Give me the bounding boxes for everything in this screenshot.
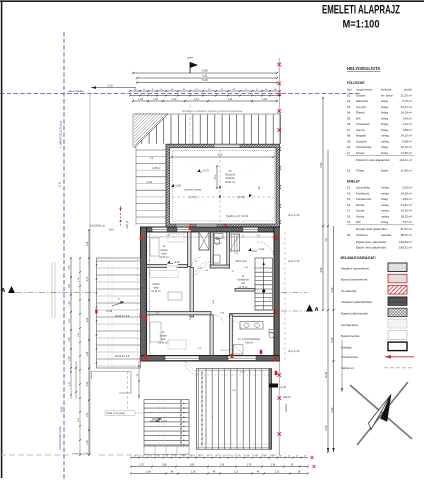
svg-text:Meglévő falszerkezet: Meglévő falszerkezet [341, 266, 369, 270]
svg-text:Vetített él: Vetített él [341, 366, 354, 370]
svg-text:1,25: 1,25 [87, 440, 89, 445]
svg-text:45: 45 [296, 455, 298, 457]
svg-text:19x26 cm 27; 16:32: 19x26 cm 27; 16:32 [226, 215, 249, 218]
right dim line x333 [331, 226, 335, 452]
svg-text:28,91 m²: 28,91 m² [401, 233, 412, 237]
svg-text:04.: 04. [347, 111, 351, 115]
section marker A left [1, 286, 96, 294]
svg-text:FÖLDSZINT: FÖLDSZINT [347, 80, 365, 85]
svg-text:+1,02: +1,02 [258, 248, 265, 251]
svg-text:28: 28 [184, 407, 186, 409]
svg-text:4,60: 4,60 [320, 267, 323, 272]
svg-text:Étkező: Étkező [356, 110, 365, 115]
svg-text:6,10: 6,10 [202, 78, 208, 82]
svg-text:Emelet nettó alapterület:: Emelet nettó alapterület: [356, 227, 388, 231]
svg-text:18.: 18. [347, 214, 351, 218]
svg-text:(A-2) m-20: (A-2) m-20 [288, 260, 300, 263]
WC room walls [211, 232, 230, 268]
bottom dim chain 2 [130, 464, 315, 468]
legend Hőszigetelés [341, 320, 407, 329]
svg-text:Fürdőszoba: Fürdőszoba [356, 145, 372, 149]
deck anchor bar [269, 384, 287, 390]
partition horizontal y267 [147, 264, 230, 268]
svg-text:EMELETI ALAPRAJZ: EMELETI ALAPRAJZ [322, 5, 400, 17]
5,85 rotated dim [60, 406, 64, 412]
svg-text:meleg: meleg [381, 191, 389, 195]
svg-text:WC: WC [356, 220, 361, 224]
landing hatch box [196, 262, 209, 275]
svg-text:+1,98: +1,98 [196, 348, 202, 350]
furniture room2 [150, 271, 182, 301]
svg-text:→: → [211, 415, 214, 418]
svg-text:11,50 m²: 11,50 m² [401, 151, 412, 155]
svg-text:1,41: 1,41 [69, 337, 71, 342]
svg-text:ráépítés: ráépítés [381, 233, 392, 237]
svg-text:Vízelvezetés: Vízelvezetés [341, 355, 359, 359]
deck label box [105, 411, 146, 416]
left chain x71 lower segment [69, 361, 77, 399]
svg-text:18,25 m²: 18,25 m² [401, 214, 412, 218]
fence red x marks [277, 63, 281, 436]
section line right y292 [281, 292, 307, 294]
left roof slope hatch (attic level) [136, 147, 166, 225]
main stair [255, 258, 273, 310]
svg-text:45: 45 [134, 455, 136, 457]
terrace slope arrow [112, 298, 124, 306]
svg-text:14,10 m²: 14,10 m² [401, 134, 412, 138]
svg-text:45: 45 [191, 455, 193, 457]
svg-text:28: 28 [184, 435, 186, 437]
svg-text:19.: 19. [347, 220, 351, 224]
svg-text:hideg: hideg [381, 111, 388, 115]
svg-text:+1,88: +1,88 [175, 185, 182, 188]
svg-text:ráépítés: ráépítés [225, 176, 235, 180]
roof hip diagonal hatch top-left [134, 114, 168, 148]
main floor bottom wall [141, 356, 280, 362]
dimension chain row A [129, 89, 281, 92]
deck tick chain x202 [201, 371, 203, 447]
svg-text:21,26 m²: 21,26 m² [401, 93, 412, 97]
svg-text:M=1:100: M=1:100 [343, 19, 380, 31]
5,11 rotated dim upper [58, 181, 62, 187]
left red dotted marker [119, 206, 121, 226]
terasz rotated [285, 403, 288, 412]
svg-text:189,32 m²: 189,32 m² [399, 245, 412, 249]
svg-text:28: 28 [184, 412, 186, 414]
svg-text:Kamra: Kamra [356, 128, 365, 132]
svg-text:4,50 m²: 4,50 m² [245, 342, 253, 345]
room labels [159, 245, 169, 259]
dashed helper vertical right of plan [284, 232, 286, 360]
svg-text:28: 28 [184, 402, 186, 404]
level mark +1,98 [197, 169, 209, 173]
furniture room3 [150, 322, 186, 349]
svg-text:JELMAGYARÁZAT:: JELMAGYARÁZAT: [340, 255, 376, 260]
vertical dim inside attic [215, 165, 218, 189]
svg-text:81,61 m²: 81,61 m² [401, 227, 412, 231]
attic interior dashed projection lines [172, 150, 275, 222]
WC fixtures [213, 238, 220, 263]
bottom dim chain 1 dense [130, 455, 313, 459]
svg-text:Égetett pillér/tartófal: Égetett pillér/tartófal [341, 311, 368, 316]
svg-text:10xP_R: 10xP_R [127, 221, 129, 230]
svg-text:A: A [315, 307, 319, 313]
svg-text:4,10: 4,10 [218, 154, 223, 157]
svg-text:16. 2,03 Fürdőszoba: 16. 2,03 Fürdőszoba [238, 338, 261, 341]
svg-text:16.: 16. [347, 203, 351, 207]
svg-text:13.: 13. [347, 186, 351, 190]
partition horizontal y312 [147, 312, 275, 317]
svg-text:szegély határa: szegély határa [72, 452, 91, 456]
svg-text:24,0: 24,0 [109, 229, 114, 232]
svg-text:Szoba: Szoba [356, 209, 365, 213]
svg-text:+3,18: +3,18 [174, 261, 181, 264]
svg-text:Földszint nettó alapterület:: Földszint nettó alapterület: [356, 158, 390, 162]
svg-text:28: 28 [184, 430, 186, 432]
roof window note [182, 109, 243, 113]
below stairs planks [144, 446, 189, 455]
bathroom wall vertical [230, 315, 233, 356]
svg-text:45: 45 [215, 455, 217, 457]
legend Új válaszfal [341, 286, 407, 295]
svg-text:1,40: 1,40 [146, 471, 151, 473]
svg-text:6,11: 6,11 [202, 74, 208, 78]
svg-text:4,12 m²: 4,12 m² [402, 122, 412, 126]
svg-text:1,12: 1,12 [234, 471, 239, 473]
svg-text:15,41 m²: 15,41 m² [158, 342, 168, 345]
svg-text:1,98 14: 1,98 14 [152, 168, 160, 170]
note 10x19 cm [90, 225, 114, 232]
hall partition near stairs [235, 289, 255, 292]
svg-text:telek határa: telek határa [68, 89, 84, 93]
svg-text:03.: 03. [347, 105, 351, 109]
terrace note 1 [106, 310, 113, 313]
svg-text:01.: 01. [347, 93, 351, 97]
legend Égetett pillér/tartófal [341, 308, 407, 317]
legend red arrow Vizelvezetes [341, 355, 414, 359]
svg-text:panelok vonala: panelok vonala [185, 189, 202, 192]
svg-text:Előszoba: Előszoba [356, 99, 368, 103]
svg-text:5,85: 5,85 [60, 406, 64, 412]
svg-text:Épület nettó alapterület:: Épület nettó alapterület: [356, 244, 387, 249]
attic left small dims [146, 157, 161, 184]
svg-text:Közlekedő: Közlekedő [356, 122, 370, 126]
svg-text:Bontott falszerkezet: Bontott falszerkezet [341, 278, 368, 282]
svg-text:WC: WC [356, 116, 361, 120]
svg-text:Szoba: Szoba [152, 283, 160, 286]
svg-text:megnevezés: megnevezés [356, 88, 373, 92]
bottom deck planks [197, 369, 271, 450]
svg-text:Új válaszfal: Új válaszfal [341, 288, 357, 293]
legend dashed line Vetitett el [341, 366, 414, 370]
svg-text:1,96: 1,96 [162, 464, 167, 466]
svg-text:15.: 15. [347, 197, 351, 201]
room list table [347, 66, 414, 249]
svg-text:07.: 07. [347, 128, 351, 132]
svg-text:4,11: 4,11 [228, 98, 233, 101]
level mark +1,88 [189, 196, 196, 199]
legend Vasbeton pillér/áthidaló [341, 297, 407, 306]
left terrace deck [97, 258, 141, 368]
svg-text:szomszédos telek: szomszédos telek [58, 426, 62, 450]
svg-text:2,14: 2,14 [220, 464, 225, 466]
svg-text:16,3 m 31: 16,3 m 31 [220, 350, 230, 352]
svg-text:Épület össz. alapterület:: Épület össz. alapterület: [356, 239, 387, 244]
svg-text:Nappali: Nappali [356, 134, 366, 138]
svg-text:28: 28 [184, 416, 186, 418]
svg-text:mérő: mérő [187, 56, 193, 60]
partition bottom rooms vertical [210, 315, 213, 356]
svg-text:45: 45 [280, 455, 282, 457]
main floor top wall [147, 227, 275, 232]
svg-text:45: 45 [247, 455, 249, 457]
svg-text:Áthidaló: Áthidaló [341, 345, 352, 349]
svg-text:1,45 m²: 1,45 m² [402, 116, 412, 120]
svg-text:2,66: 2,66 [190, 464, 195, 466]
attic room label [225, 169, 236, 184]
attic room outer wall [166, 144, 280, 227]
svg-text:21,59 m²: 21,59 m² [401, 169, 412, 173]
svg-text:5,10: 5,10 [87, 276, 89, 281]
svg-text:45: 45 [304, 455, 306, 457]
svg-text:2,01: 2,01 [215, 174, 217, 179]
svg-text:28: 28 [184, 444, 186, 446]
bottom-left stairs [144, 400, 189, 446]
level mark +1,02 main [248, 248, 265, 251]
svg-text:2,02: 2,02 [87, 317, 89, 322]
svg-text:28: 28 [184, 425, 186, 427]
dimension chain row B [129, 95, 281, 97]
svg-text:+3,60: +3,60 [146, 181, 153, 184]
svg-text:1,41: 1,41 [69, 283, 71, 288]
legend Áthidaló [341, 342, 407, 351]
attic room inner dotted insulation [173, 151, 275, 221]
svg-text:45: 45 [231, 455, 233, 457]
svg-text:14,20 m²: 14,20 m² [401, 209, 412, 213]
svg-text:45: 45 [183, 455, 185, 457]
svg-text:(2,7%): (2,7%) [237, 196, 244, 199]
svg-text:3,20: 3,20 [87, 381, 89, 386]
svg-text:08.: 08. [347, 134, 351, 138]
right side notes [283, 214, 300, 399]
neighbour parcel rotated text [58, 426, 62, 450]
svg-text:5,20 m²: 5,20 m² [402, 186, 412, 190]
svg-text:meleg: meleg [381, 186, 389, 190]
dashed helper vertical left of plan [137, 258, 139, 360]
stairs right dim chain x181 [180, 400, 185, 446]
svg-text:külpontl: külpontl [283, 396, 291, 399]
svg-text:terület: terület [404, 88, 412, 92]
svg-text:12.: 12. [347, 169, 351, 173]
svg-text:hideg: hideg [381, 122, 388, 126]
svg-text:45: 45 [272, 455, 274, 457]
svg-text:Szoba: Szoba [356, 214, 365, 218]
interior dim chain top [146, 236, 274, 238]
gray dashed line szegely [0, 454, 280, 456]
bottom extension verticals [144, 450, 278, 461]
svg-text:(A-2) m-20: (A-2) m-20 [288, 350, 300, 353]
svg-text:veranda: veranda [285, 403, 288, 412]
svg-text:10,13 m²: 10,13 m² [401, 145, 412, 149]
panel line note [185, 189, 202, 192]
legend Bontott falszerkezet [341, 274, 407, 283]
svg-text:10,32: 10,32 [325, 371, 328, 378]
svg-text:45: 45 [142, 455, 144, 457]
svg-text:1. MEGÚJULÓ utca: 1. MEGÚJULÓ utca [58, 120, 63, 148]
attic bottom wall windows [176, 224, 217, 227]
svg-text:1,40: 1,40 [153, 98, 158, 101]
svg-text:28: 28 [184, 439, 186, 441]
attic 5 label [258, 186, 260, 190]
label telek hatara [67, 89, 93, 94]
svg-text:Fürdőszoba: Fürdőszoba [356, 197, 372, 201]
misc small dims main floor [194, 231, 225, 315]
level mark right (2,75) [237, 194, 252, 199]
svg-text:A: A [1, 288, 5, 294]
svg-text:meleg: meleg [381, 209, 389, 213]
svg-text:1,18: 1,18 [191, 471, 196, 473]
svg-text:+3,48: +3,48 [106, 310, 113, 313]
dim text bottom attic [226, 215, 249, 218]
svg-text:45: 45 [223, 455, 225, 457]
lot line x=90 [89, 94, 91, 455]
level flag room1 [167, 261, 180, 265]
svg-text:1,10: 1,10 [172, 98, 177, 101]
legend Meglévő falszerkezet [341, 263, 407, 272]
svg-text:18,91 m²: 18,91 m² [225, 180, 235, 184]
svg-text:2,1´: 2,1´ [150, 157, 154, 160]
svg-text:+0,45: +0,45 [280, 387, 287, 389]
left dim chain x89 [87, 229, 90, 456]
door swing arcs [192, 242, 274, 329]
side path lines [91, 372, 131, 394]
deck right edge dark [269, 369, 272, 450]
svg-text:meleg: meleg [381, 203, 389, 207]
svg-text:1,10: 1,10 [194, 98, 199, 101]
svg-text:Ssz.: Ssz. [347, 88, 353, 92]
street name rotated [58, 120, 63, 148]
svg-text:burkolat: burkolat [381, 88, 391, 92]
svg-text:Szoba: Szoba [356, 203, 365, 207]
svg-text:(2,7%): (2,7%) [189, 196, 196, 199]
partition wall middle vertical [190, 268, 193, 318]
svg-text:Wind. kelti: Wind. kelti [235, 260, 246, 263]
stair level +3,18 [150, 420, 168, 423]
svg-text:Terasz: Terasz [356, 169, 365, 173]
left dim chain x71 [69, 257, 72, 369]
svg-text:05.: 05. [347, 116, 351, 120]
svg-text:1,46: 1,46 [138, 98, 143, 101]
svg-text:Szoba: Szoba [160, 249, 168, 252]
svg-text:02.: 02. [347, 99, 351, 103]
svg-text:45: 45 [166, 455, 168, 457]
left dim chain x80 [78, 257, 81, 456]
svg-text:16,16 m²: 16,16 m² [151, 290, 161, 293]
svg-text:14.: 14. [347, 191, 351, 195]
svg-text:17.: 17. [347, 209, 351, 213]
svg-text:Hőszigetelés: Hőszigetelés [341, 323, 359, 327]
svg-text:6x30 cs ta párja: 6x30 cs ta párja [107, 411, 126, 415]
svg-text:10,21 m²: 10,21 m² [401, 105, 412, 109]
svg-text:1,57 m²: 1,57 m² [214, 242, 222, 245]
gray dashed vert at deck left [127, 371, 129, 412]
svg-text:5,76 m²: 5,76 m² [402, 99, 412, 103]
right dim line x327 [325, 150, 329, 453]
left border line [1, 1, 3, 478]
attic top dim 4,10 [170, 154, 274, 159]
roof rafter hatch top [133, 114, 281, 147]
svg-text:tetőkibúvó ablakok szükség sze: tetőkibúvó ablakok szükség szerinti kios… [182, 109, 243, 113]
svg-text:1,71: 1,71 [69, 318, 71, 323]
legend header JELMAGYARAZAT [340, 255, 376, 260]
svg-text:1,28: 1,28 [87, 241, 89, 246]
legend Burkolt terület [341, 331, 407, 340]
top border line [0, 0, 424, 2]
stairs top dim chain x139 [137, 361, 140, 399]
svg-text:hideg: hideg [381, 99, 388, 103]
deck small texts [211, 372, 246, 419]
deck door arc [185, 361, 199, 375]
svg-text:14,76 m²: 14,76 m² [238, 286, 248, 289]
svg-text:hideg: hideg [381, 197, 388, 201]
svg-text:1,12: 1,12 [275, 471, 280, 473]
svg-text:5,30: 5,30 [202, 69, 208, 73]
partition wall room1 right [188, 232, 192, 267]
dimension line 6,10 [136, 78, 278, 84]
svg-text:(A-2) m-20: (A-2) m-20 [288, 214, 300, 217]
svg-text:14,18 m²: 14,18 m² [401, 111, 412, 115]
svg-text:5,11: 5,11 [58, 181, 62, 187]
svg-text:Burkolt terület: Burkolt terület [341, 334, 360, 338]
svg-text:HELYISÉGLISTA: HELYISÉGLISTA [347, 66, 380, 71]
svg-text:Szoba: Szoba [159, 335, 167, 338]
svg-text:hideg: hideg [381, 145, 388, 149]
level mark +1,75 [171, 184, 181, 188]
svg-text:Garázs: Garázs [356, 93, 366, 97]
fence property line right [278, 58, 280, 455]
svg-text:hideg: hideg [381, 116, 388, 120]
svg-text:11.: 11. [347, 151, 351, 155]
svg-text:45: 45 [158, 455, 160, 457]
svg-text:8,75: 8,75 [331, 337, 334, 342]
svg-text:Tetőszint: Tetőszint [356, 233, 368, 237]
svg-text:11,61 m²: 11,61 m² [401, 203, 412, 207]
svg-text:4,50 m²: 4,50 m² [402, 197, 412, 201]
svg-text:1,26: 1,26 [262, 98, 267, 101]
bottom dim chain 3 [130, 471, 309, 474]
svg-text:1,28: 1,28 [87, 351, 89, 356]
svg-text:hideg: hideg [381, 151, 388, 155]
svg-text:Vasbeton pillér/áthidaló: Vasbeton pillér/áthidaló [341, 300, 372, 304]
dimension line 5,30 [132, 69, 278, 75]
red mark near attic bottom wall [225, 224, 227, 229]
svg-text:45: 45 [256, 455, 258, 457]
svg-text:45: 45 [288, 455, 290, 457]
svg-text:45: 45 [199, 455, 201, 457]
svg-text:5: 5 [258, 186, 260, 190]
terrace edge ticks [96, 264, 98, 364]
terrace red mark [95, 310, 97, 314]
svg-text:14,28 m²: 14,28 m² [401, 191, 412, 195]
dimension line 6,11 [136, 74, 278, 80]
svg-text:meleg: meleg [381, 134, 389, 138]
svg-text:hideg: hideg [381, 128, 388, 132]
axis dashed x190 [189, 104, 191, 144]
blue dashed property line horizontal [0, 93, 362, 95]
svg-text:19x18 cm 8,8: 19x18 cm 8,8 [115, 355, 130, 358]
svg-text:1,70: 1,70 [139, 464, 144, 466]
svg-text:1,50: 1,50 [69, 356, 71, 361]
